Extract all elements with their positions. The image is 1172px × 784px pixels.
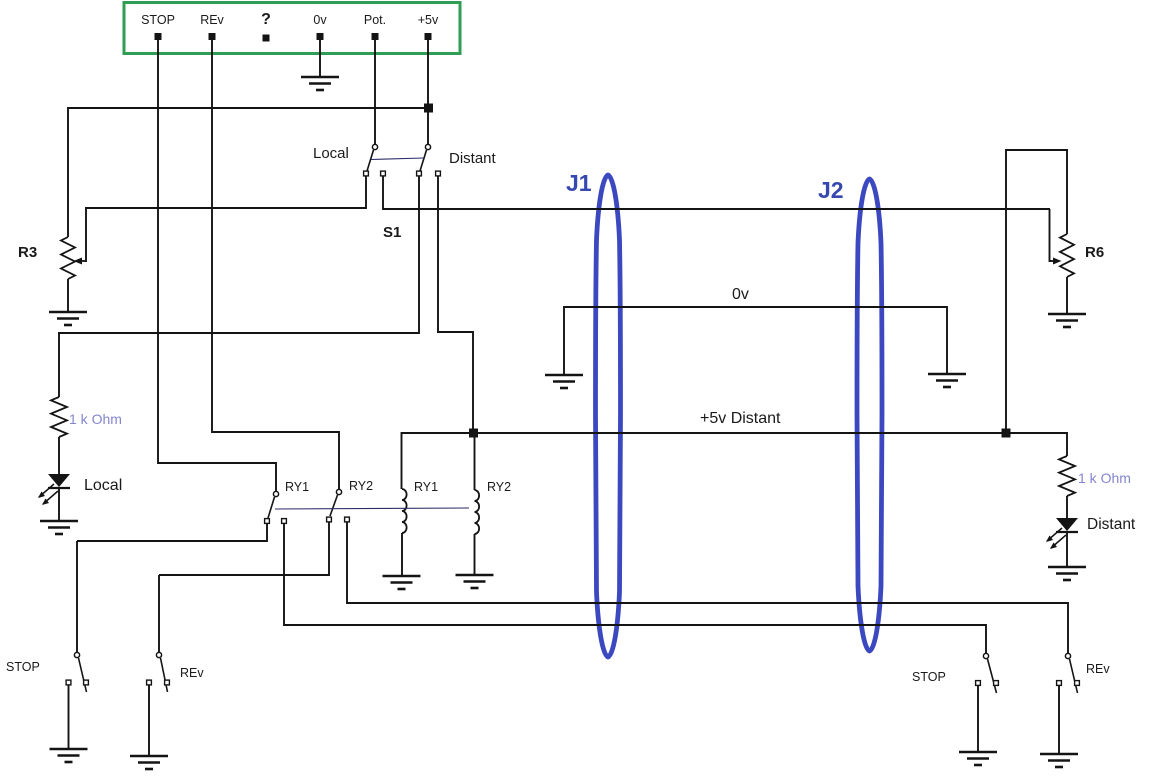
svg-text:Distant: Distant (1087, 516, 1136, 533)
LED local (48, 474, 70, 487)
wire local LED feed (58, 437, 60, 474)
svg-text:?: ? (261, 11, 271, 28)
wire RY2 to REv-right (347, 602, 1068, 604)
wire REv-right feed (1067, 602, 1069, 653)
switch REv-right throw B (1075, 681, 1080, 686)
wire S1 distant jog (437, 331, 473, 333)
switch REv-right pivot (1065, 653, 1070, 658)
switch RY2 arm (330, 495, 338, 516)
wire RY2 right throw drop (346, 522, 348, 604)
ground STOP-right (959, 752, 997, 765)
ground R3 (49, 312, 87, 325)
svg-text:1 k Ohm: 1 k Ohm (69, 411, 122, 427)
wire pot bus left segment (85, 207, 366, 209)
switch RY2 pivot (336, 489, 341, 494)
svg-text:0v: 0v (313, 13, 327, 27)
wire RY1 switch feed (275, 462, 277, 491)
switch REv-right throw A (1057, 681, 1062, 686)
wire R3 top feed (67, 107, 69, 237)
switch S1 pole1 throw local (364, 171, 369, 176)
relay linkage line (275, 508, 469, 509)
wire S1 pole1 local throw stem (365, 176, 367, 209)
ground REv-left (130, 756, 168, 769)
switch REv-right arm (1070, 659, 1078, 693)
svg-text:0v: 0v (732, 286, 749, 303)
ground 0v right (928, 374, 966, 387)
terminal 0v pin (317, 33, 324, 40)
svg-text:Local: Local (84, 477, 122, 494)
wire distant LED cathode stem (1066, 532, 1068, 567)
wire REv-left ground stem (148, 685, 150, 756)
wire RY1 coil feed corner (401, 432, 403, 489)
wire REv-left feed (158, 575, 160, 652)
switch STOP-right pivot (983, 653, 988, 658)
wire RY1 left throw drop (266, 524, 268, 542)
svg-text:J2: J2 (818, 177, 844, 203)
ground LED distant (1048, 567, 1086, 580)
wire +5v top horizontal (68, 107, 429, 109)
wire distant resistor feed (1066, 432, 1068, 456)
svg-text:RY2: RY2 (349, 479, 373, 493)
wire S1 pole1 distant throw stem (382, 176, 384, 210)
wire 0v right drop (946, 306, 948, 374)
switch RY1 pivot (273, 491, 278, 496)
wire +5v distant rail (401, 432, 1067, 434)
svg-text:RY1: RY1 (285, 480, 309, 494)
switch STOP-right throw A (976, 681, 981, 686)
wire R6 top feed (1066, 149, 1068, 234)
switch S1 pole2 throw distant (436, 171, 441, 176)
wire S1 distant drop to +5v rail (472, 331, 474, 433)
switch STOP-right throw B (994, 681, 999, 686)
cable bundle J1 (596, 175, 621, 657)
wire REv-right ground stem (1058, 686, 1060, 754)
terminal Pot. pin (372, 33, 379, 40)
svg-text:Distant: Distant (449, 150, 497, 167)
svg-text:Pot.: Pot. (364, 13, 386, 27)
wire 0v left drop (563, 306, 565, 375)
switch RY1 throw right (282, 519, 287, 524)
wire RY2 coil bottom stem (474, 534, 476, 575)
junction +5v / top rail (424, 104, 433, 113)
wire STOP-left ground stem (68, 685, 70, 749)
svg-text:STOP: STOP (912, 670, 946, 684)
svg-text:J1: J1 (566, 170, 592, 196)
relay coil RY2 (475, 490, 480, 534)
wire distant LED feed (1066, 496, 1068, 518)
svg-text:STOP: STOP (6, 660, 40, 674)
switch S1 pole1 pivot (372, 144, 377, 149)
ground REv-right (1040, 754, 1078, 767)
wire Pot vertical (374, 40, 376, 144)
switch RY1 arm (268, 497, 275, 518)
wire RY1 coil bottom stem (401, 533, 403, 576)
switch RY2 throw right (345, 517, 350, 522)
potentiometer R6 body (1060, 234, 1074, 277)
resistor 1k (local) body (51, 397, 67, 437)
wire STOP-left feed (76, 541, 78, 652)
wire S1 local throw drop (418, 176, 420, 334)
LED distant emission arrows (1047, 528, 1062, 541)
wire REv to RY2 switch (213, 431, 339, 433)
R3 wiper arrow (78, 260, 86, 262)
svg-text:R6: R6 (1085, 244, 1104, 261)
wire STOP-right ground stem (977, 686, 979, 752)
terminal +5v pin (425, 33, 432, 40)
wire R6 wiper lead (1049, 260, 1057, 262)
cable bundle J2 (857, 179, 882, 651)
wire 0v horizontal (564, 306, 947, 308)
S1 linkage line (371, 158, 424, 160)
wire R3 bottom stem (67, 279, 69, 312)
switch S1 pole2 throw local (417, 171, 422, 176)
wire REv vertical (211, 40, 213, 433)
ground RY1 coil (383, 576, 421, 589)
switch REv-left pivot (156, 652, 161, 657)
wire STOP vertical (157, 40, 159, 464)
wire RY1 to STOP-right (284, 624, 986, 626)
switch STOP-left throw B (84, 680, 89, 685)
switch STOP-left pivot (74, 652, 79, 657)
wire local LED cathode stem (58, 488, 60, 521)
svg-text:Local: Local (313, 145, 349, 162)
wire R6 wiper drop (1049, 209, 1051, 262)
switch S1 pole1 arm (367, 150, 374, 171)
terminal ? pin (263, 35, 270, 42)
wire RY1 right throw drop (283, 524, 285, 626)
switch S1 pole2 pivot (425, 144, 430, 149)
svg-text:REv: REv (200, 13, 224, 27)
wire R6 bottom stem (1066, 277, 1068, 314)
ground R6 (1048, 314, 1086, 327)
ground RY2 coil (456, 575, 494, 588)
junction +5v rail / RY2 coil (469, 429, 478, 438)
wire RY2 to REv-left (159, 574, 329, 576)
switch STOP-left arm (79, 658, 87, 692)
R6 wiper arrow (1053, 258, 1062, 265)
switch REv-left throw A (147, 680, 152, 685)
switch RY1 throw left (265, 519, 270, 524)
wire +5v vertical (427, 40, 429, 144)
wire +5v right riser (1005, 149, 1007, 434)
svg-text:+5v: +5v (418, 13, 439, 27)
potentiometer R3 body (61, 237, 75, 279)
svg-text:RY1: RY1 (414, 480, 438, 494)
wire 0v stem (319, 40, 321, 77)
wire pot bus right segment (383, 208, 1050, 210)
ground STOP-left (50, 749, 88, 762)
wire RY2 left throw drop (328, 522, 330, 576)
svg-text:1 k Ohm: 1 k Ohm (1078, 470, 1131, 486)
junction +5v rail / right riser (1002, 429, 1011, 438)
wire local branch horizontal (58, 332, 419, 334)
switch STOP-right arm (988, 659, 997, 693)
svg-text:REv: REv (180, 666, 204, 680)
terminal REv pin (209, 33, 216, 40)
wire RY1 to STOP-left (77, 540, 267, 542)
switch REv-left arm (161, 658, 168, 692)
wire STOP to RY1 switch (158, 462, 276, 464)
wire R3 wiper riser (85, 208, 87, 262)
LED distant (1056, 518, 1078, 531)
wire STOP-right feed (985, 624, 987, 653)
connector block (green terminal strip) (124, 3, 460, 54)
wire S1 distant throw drop (437, 176, 439, 333)
wire local resistor feed (58, 332, 60, 397)
resistor 1k (distant) body (1059, 456, 1075, 496)
svg-text:R3: R3 (18, 244, 37, 261)
wire R6 top horizontal (1006, 149, 1068, 151)
wire RY2 coil feed (474, 433, 476, 490)
svg-text:STOP: STOP (141, 13, 175, 27)
LED local emission arrows (39, 484, 54, 497)
switch STOP-left throw A (66, 680, 71, 685)
switch S1 pole1 throw distant (381, 171, 386, 176)
svg-text:S1: S1 (383, 224, 401, 241)
svg-text:+5v Distant: +5v Distant (700, 410, 781, 427)
ground LED local (40, 521, 78, 534)
switch S1 pole2 arm (420, 150, 427, 171)
wire RY2 switch feed (338, 431, 340, 489)
switch REv-left throw B (165, 680, 170, 685)
svg-text:REv: REv (1086, 662, 1110, 676)
terminal STOP pin (155, 33, 162, 40)
ground 0v left (545, 375, 583, 388)
ground 0v terminal (301, 77, 339, 90)
relay coil RY1 (402, 489, 407, 533)
svg-text:RY2: RY2 (487, 480, 511, 494)
switch RY2 throw left (327, 517, 332, 522)
